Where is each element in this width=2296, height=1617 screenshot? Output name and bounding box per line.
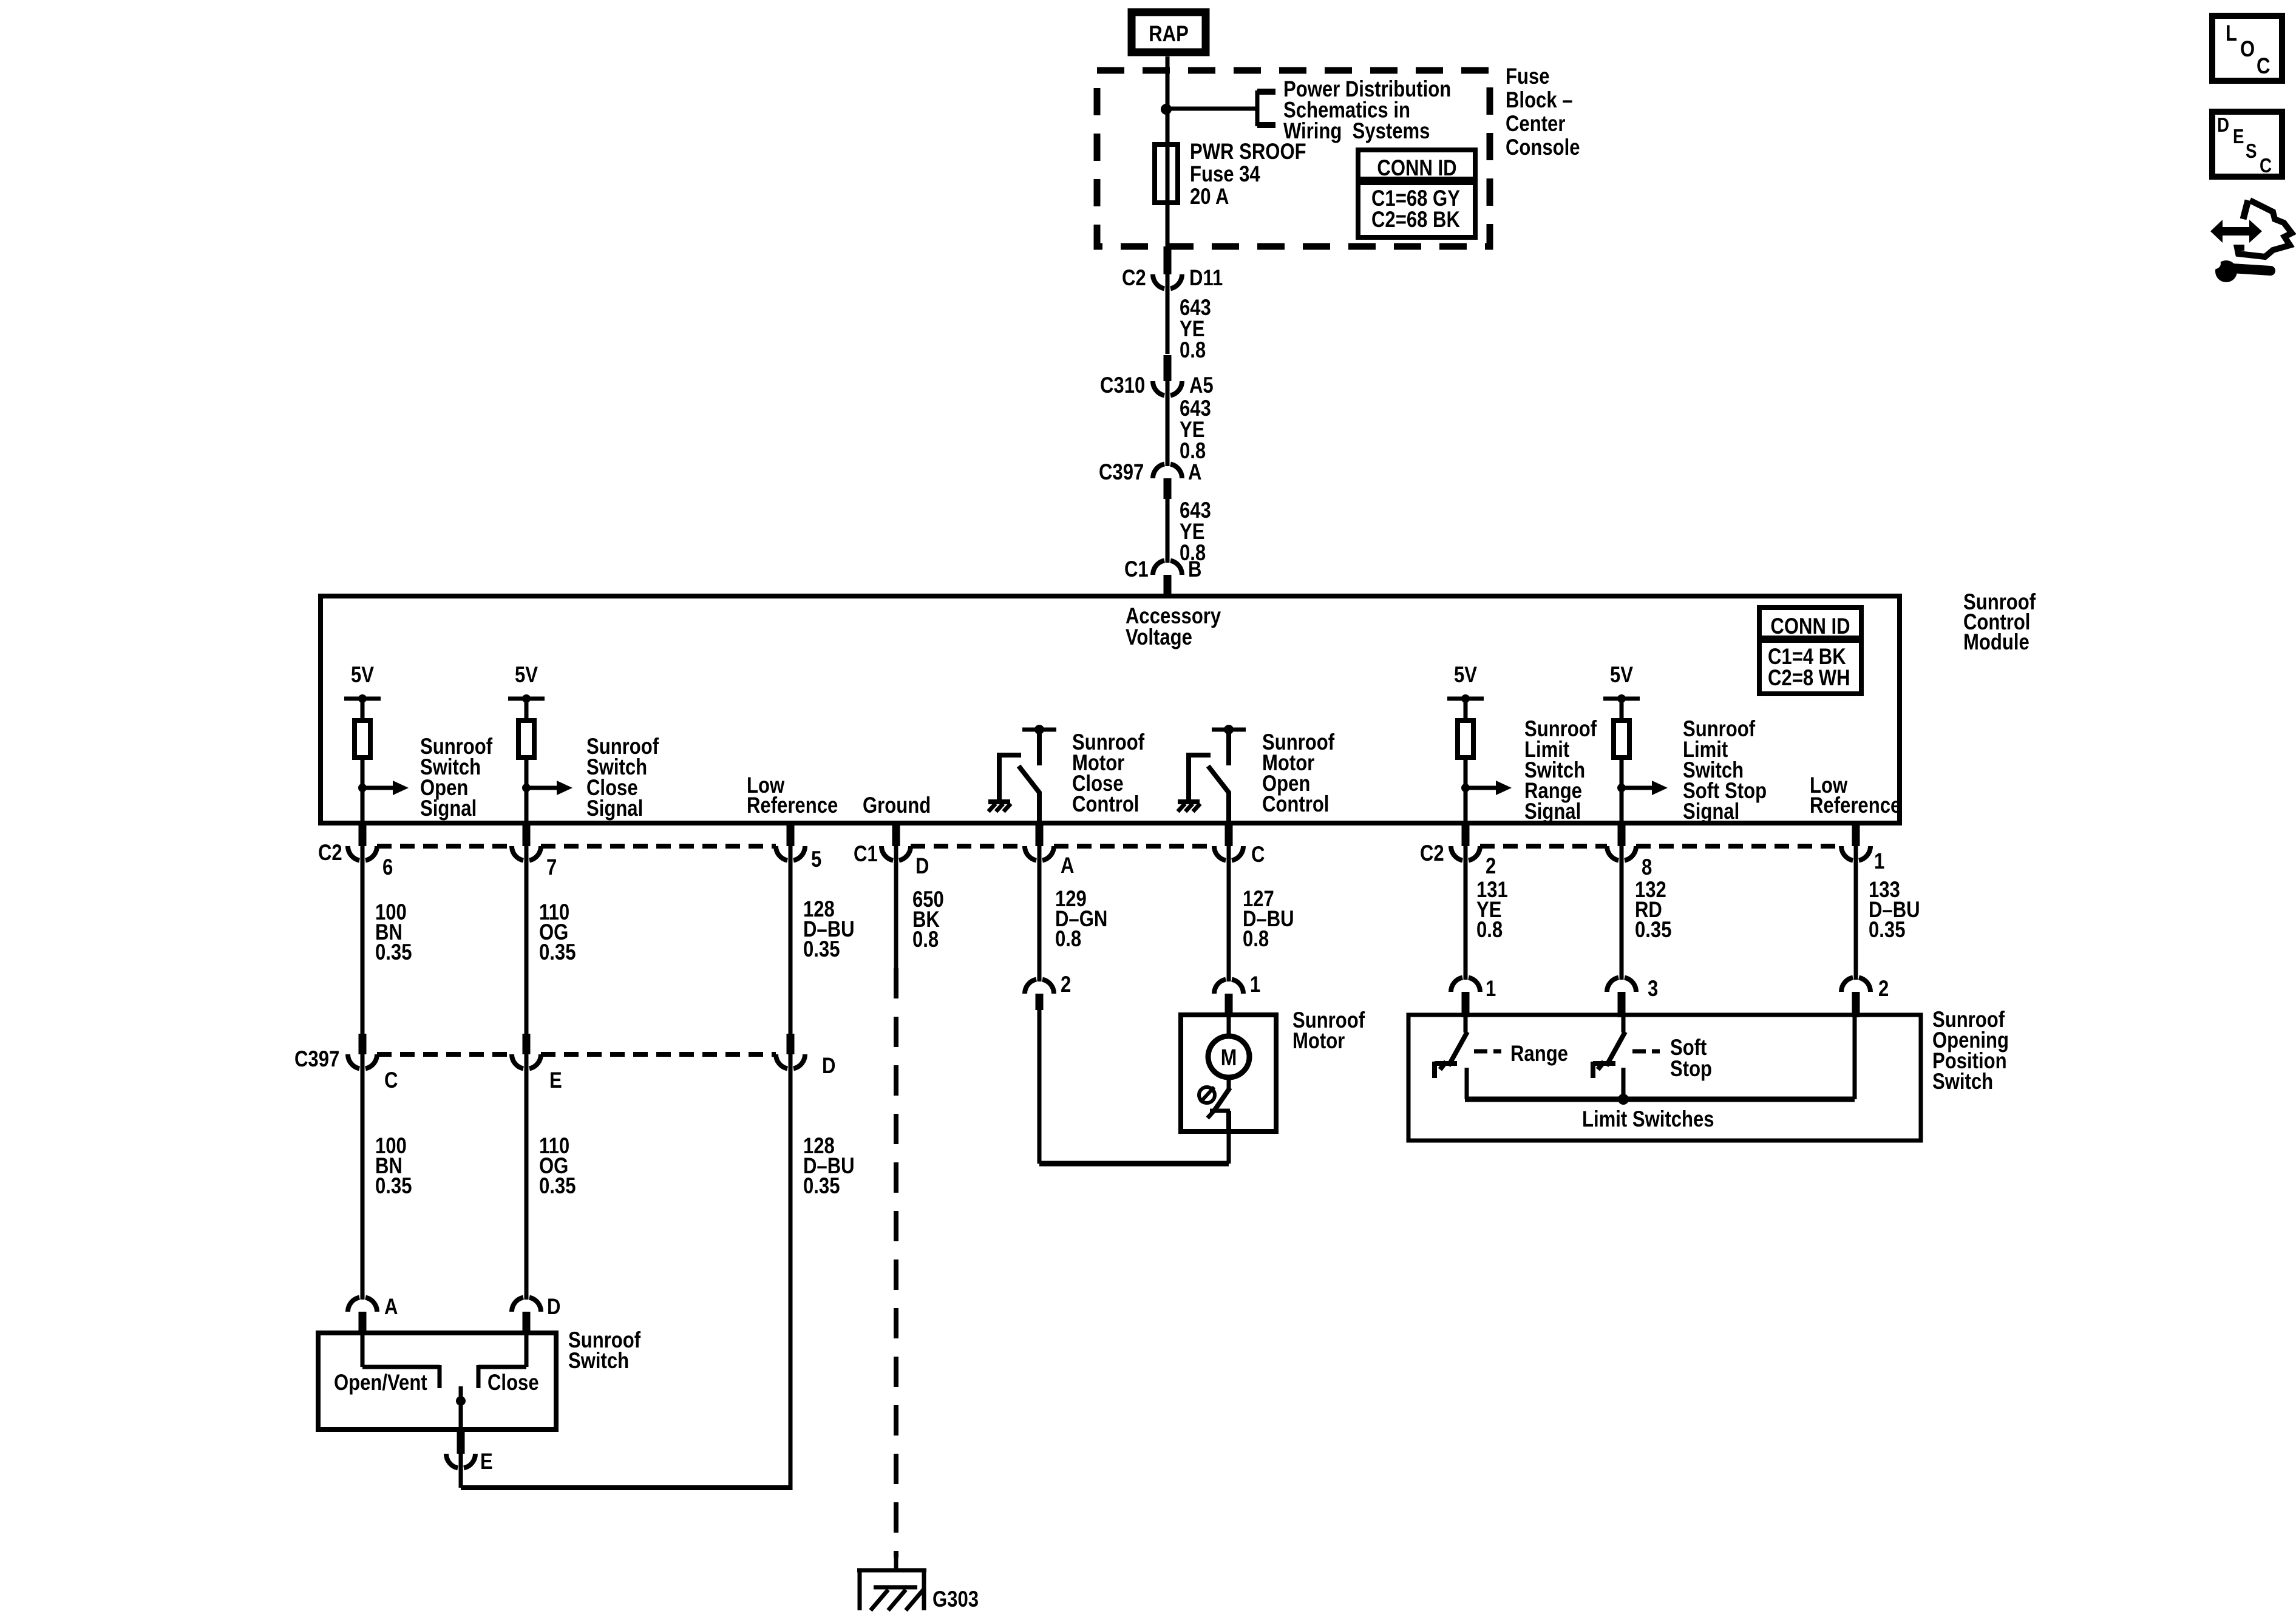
svg-text:L: L [2226,21,2237,46]
wire pin 2 to common bus [1853,1017,1857,1099]
wire 133 D-BU [1854,846,1858,980]
fuse F34 PWR SROOF [1155,144,1178,203]
module pin stub 1 [1852,824,1860,846]
label Low Reference (left) [747,773,838,818]
svg-text:C2: C2 [1420,841,1444,866]
wire label 129 D-GN 0.8 [1055,887,1107,952]
label Sunroof Motor Open Control [1262,730,1335,817]
junction node (soft stop) [1617,784,1626,792]
svg-text:A5: A5 [1189,373,1214,398]
label Sunroof Switch [568,1328,641,1374]
svg-text:C1=68 GYC2=68 BK: C1=68 GYC2=68 BK [1371,186,1460,232]
switch common pole [459,1386,463,1432]
svg-text:Close: Close [487,1371,539,1395]
wire label 127 D-BU 0.8 [1243,887,1294,952]
pin stub E [457,1432,465,1454]
svg-text:S: S [2246,140,2257,163]
svg-text:5V: 5V [1454,663,1477,688]
limit switch Soft Stop [1622,1017,1626,1032]
svg-text:C: C [1251,842,1265,867]
module connector pin D [881,846,911,861]
svg-text:G303: G303 [932,1587,979,1612]
wire motor bottom link [1039,1161,1229,1167]
connector pin 3 (position switch) [1607,977,1636,992]
pin stub into C310 [1164,355,1172,381]
module pin stub 7 [523,824,531,846]
label Soft Stop [1670,1036,1712,1082]
switch contact Close [525,1335,529,1367]
C397 pin stub C [359,1034,367,1054]
harness dashes C397 row [377,1052,512,1057]
junction dot fuse-block tap [1161,104,1172,115]
svg-text:1: 1 [1486,977,1496,1002]
label PWR SROOF Fuse 34 20A [1190,140,1306,209]
svg-text:1: 1 [1874,849,1884,874]
svg-text:SunroofControlModule: SunroofControlModule [1963,590,2036,655]
driver switch sunroof motor open control [1212,728,1246,732]
Sunroof Opening Position Switch box [1408,1015,1921,1141]
wire 650 BK dashed run [894,968,898,1558]
svg-text:D: D [915,854,929,879]
svg-text:D: D [2217,114,2229,137]
connector label C2 (left group) [318,841,342,866]
Sunroof Motor box [1181,1015,1276,1131]
connector C310 pin A5 [1153,381,1182,396]
module pin stub 6 [359,824,367,846]
C397 pin stub E [523,1034,531,1054]
svg-text:C1: C1 [1124,557,1149,582]
connector label C397 [294,1047,339,1072]
svg-text:CONN ID: CONN ID [1377,156,1456,181]
signal arrow (soft stop) [1622,786,1653,790]
junction node (close) [522,784,531,792]
svg-text:2: 2 [1878,977,1889,1002]
pin label 1 (position switch) [1486,977,1496,1002]
svg-text:M: M [1221,1045,1237,1070]
pin label 7 [546,855,557,880]
wire RAP feed vertical [1166,56,1170,250]
module connector pin 5 [776,846,805,861]
label G303 [932,1587,979,1612]
icon DESC [2212,112,2282,177]
label Open/Vent [334,1371,427,1395]
label Sunroof Opening Position Switch [1932,1008,2009,1094]
wire motor return [1038,1010,1042,1164]
module connector pin 2 [1451,846,1480,861]
wire label 110 OG 0.35 (2) [539,1134,576,1199]
limit switch common bus [1465,1097,1855,1102]
pin label D [915,854,929,879]
wire label 100 BN 0.35 (1) [375,900,412,965]
wire resistor to pin (soft stop) [1620,758,1624,824]
svg-text:C310: C310 [1100,373,1145,398]
wire label 110 OG 0.35 (1) [539,900,576,965]
5V supply (range) [1454,663,1477,688]
module pin stub 5 [787,824,795,846]
svg-text:C: C [384,1068,398,1093]
label Sunroof Limit Switch Soft Stop Signal [1683,717,1767,824]
label Close [487,1371,539,1395]
resistor pull-up (range) [1458,720,1473,758]
connector pin D (sunroof switch) [512,1297,541,1312]
pin label D [547,1295,560,1320]
svg-text:D: D [822,1054,835,1079]
icon LOC [2212,16,2282,81]
wire 100 BN upper [361,846,365,1034]
Sunroof Switch box [318,1333,556,1429]
module connector pin C [1214,846,1243,861]
pin label A [384,1295,398,1320]
wire 131 YE [1464,846,1468,980]
svg-text:5V: 5V [515,663,538,688]
label Ground [863,793,931,818]
module pin stub A [1036,824,1044,846]
connector pin 1 (motor) [1214,979,1243,994]
wire 128 D-BU lower [789,1054,793,1490]
connector label C2 (right group) [1420,841,1444,866]
wire label 131 YE 0.8 [1476,878,1508,943]
pin label C [1251,842,1265,867]
svg-text:7: 7 [546,855,557,880]
signal arrow (close) [526,786,558,790]
svg-text:C1: C1 [854,842,878,867]
svg-text:B: B [1188,557,1201,582]
label Low Reference (right) [1810,773,1901,818]
svg-text:5V: 5V [1610,663,1633,688]
wire label 643 YE 0.8 (2) [1180,396,1211,464]
module connector pin 6 [348,846,377,861]
module connector pin 8 [1607,846,1636,861]
junction dot switch common [456,1396,466,1406]
connector C2 pin D11 [1153,274,1182,289]
junction node (open) [358,784,367,792]
wire motor pin to bottom link [1227,1134,1231,1164]
position contact symbol (circle-slash) [1199,1087,1215,1103]
power symbol RAP [1132,12,1206,52]
svg-text:6: 6 [382,855,393,880]
svg-text:A: A [1188,460,1201,485]
wire label 132 RD 0.35 [1635,878,1671,943]
pin label 5 [811,847,821,872]
CONN ID table (fuse block) [1358,150,1475,237]
pin label 6 [382,855,393,880]
svg-text:E: E [549,1068,562,1093]
module pin stub D [892,824,900,846]
pin label E [480,1449,493,1474]
signal arrow (open) [362,786,394,790]
label Accessory Voltage [1126,604,1221,650]
svg-text:A: A [384,1295,398,1320]
pin label 1 [1874,849,1884,874]
label Limit Switches [1582,1107,1714,1132]
motor thermal switch [1227,1077,1231,1089]
svg-text:Open/Vent: Open/Vent [334,1371,427,1395]
5V supply (close) [515,663,538,688]
svg-text:8: 8 [1642,855,1652,880]
module connector pin 1 [1841,846,1870,861]
label Sunroof Control Module [1963,590,2036,655]
svg-text:Range: Range [1510,1042,1568,1066]
label Sunroof Limit Switch Range Signal [1524,717,1597,824]
wire 643 YE segment 2 [1166,381,1170,466]
svg-text:A: A [1061,853,1074,878]
svg-text:C: C [2257,54,2270,79]
icon adjustable component (hand/arrow/wrench) [2210,220,2262,243]
reference bracket Power Distribution [1255,90,1260,126]
ground symbol (driver close) [988,799,1010,804]
driver switch sunroof motor close control [1022,728,1056,732]
wire 129 D-GN [1038,846,1042,981]
label Sunroof Switch Open Signal [420,734,493,821]
ground G303 symbol [857,1568,926,1573]
connector pin 2 (position switch) [1841,977,1870,992]
pin label D [822,1054,835,1079]
svg-text:SoftStop: SoftStop [1670,1036,1712,1082]
connector label C1 (middle group) [854,842,878,867]
wire label 128 D-BU 0.35 (2) [803,1134,855,1199]
wire label 128 D-BU 0.35 (1) [803,897,855,962]
svg-text:C397: C397 [1099,460,1144,485]
module connector pin A [1025,846,1054,861]
switch contact Open/Vent [361,1335,365,1367]
pin label C [384,1068,398,1093]
wire label 100 BN 0.35 (2) [375,1134,412,1199]
svg-text:2: 2 [1486,854,1496,879]
connector pin A (sunroof switch) [348,1297,377,1312]
wire 110 OG lower [525,1054,529,1300]
label Sunroof Switch Close Signal [586,734,659,821]
wire resistor to pin (close) [525,758,529,824]
svg-text:3: 3 [1648,977,1658,1002]
wire label 643 YE 0.8 (3) [1180,498,1211,566]
svg-text:O: O [2240,37,2255,62]
svg-text:C2: C2 [318,841,342,866]
svg-text:D11: D11 [1189,266,1223,291]
label Sunroof Motor [1292,1008,1365,1054]
svg-text:5: 5 [811,847,821,872]
wire 127 D-BU [1227,846,1231,981]
motor M symbol [1227,1015,1231,1036]
svg-text:Limit Switches: Limit Switches [1582,1107,1714,1132]
connector C397 pin A [1153,464,1182,478]
C397 pin stub D [787,1034,795,1054]
ground symbol (driver open) [1178,799,1200,804]
dashed actuator link (Soft Stop) [1632,1049,1660,1054]
svg-text:Ground: Ground [863,793,931,818]
wire 100 BN lower [361,1054,365,1300]
pin label 2 [1486,854,1496,879]
dashed actuator link (Range) [1474,1049,1501,1054]
svg-text:E: E [2233,126,2244,148]
label Sunroof Motor Close Control [1072,730,1145,817]
svg-text:C1=4 BKC2=8 WH: C1=4 BKC2=8 WH [1768,645,1850,691]
svg-text:C: C [2260,155,2272,177]
label Range [1510,1042,1568,1066]
pin label 1 (motor) [1250,972,1260,997]
svg-text:5V: 5V [351,663,374,688]
wire resistor to pin (open) [361,758,365,824]
module pin stub 8 [1618,824,1626,846]
svg-text:D: D [547,1295,560,1320]
pin label E [549,1068,562,1093]
svg-text:1: 1 [1250,972,1260,997]
CONN ID table (module) [1759,608,1861,694]
module connector pin 7 [512,846,541,861]
signal arrow (range) [1466,786,1497,790]
low reference return wire horizontal [461,1485,790,1490]
module pin stub 2 [1462,824,1470,846]
wire resistor to pin (range) [1464,758,1468,824]
wire 643 YE segment 3 [1166,499,1170,563]
wire label 133 D-BU 0.35 [1869,878,1920,943]
pin label A [1061,853,1074,878]
label Power Distribution Schematics in Wiring Systems [1283,77,1451,144]
svg-text:E: E [480,1449,493,1474]
resistor pull-up (soft stop) [1614,720,1629,758]
wire label 643 YE 0.8 (1) [1180,296,1211,363]
connector pin 1 (position switch) [1451,977,1480,992]
wire 110 OG upper [525,846,529,1034]
pin label 2 (position switch) [1878,977,1889,1002]
wire 643 YE segment 1 [1166,274,1170,354]
pin stub into C2 [1164,246,1172,274]
wire tap to reference bracket [1166,107,1257,111]
label Fuse Block - Center Console [1506,64,1580,160]
pin label 2 (motor) [1061,972,1071,997]
Sunroof Control Module box [321,596,1900,823]
connector pin 2 (motor) [1025,979,1054,994]
svg-text:CONN ID: CONN ID [1770,614,1850,639]
5V supply (soft stop) [1610,663,1633,688]
module pin stub C [1225,824,1233,846]
svg-text:RAP: RAP [1149,22,1189,47]
junction node (range) [1461,784,1470,792]
fuse block dashed boundary [1097,70,1490,246]
wire 650 BK solid part [894,846,898,968]
5V supply (open) [351,663,374,688]
wire E to low-reference return [459,1454,463,1488]
harness dashes connector row 1 [377,844,512,849]
resistor pull-up (open) [355,720,370,758]
connector C397 pin E [512,1054,541,1069]
pin label 3 (position switch) [1648,977,1658,1002]
wire 132 RD [1620,846,1624,980]
svg-text:C2: C2 [1122,266,1146,291]
connector C1 pin B [1153,560,1182,575]
connector C397 pin D [776,1054,805,1069]
connector C397 pin C [348,1054,377,1069]
resistor pull-up (close) [518,720,534,758]
wire 128 D-BU upper [789,846,793,1034]
junction dot common bus [1618,1094,1629,1105]
svg-text:2: 2 [1061,972,1071,997]
wire label 650 BK 0.8 [912,887,944,952]
svg-text:C397: C397 [294,1047,339,1072]
limit switch Range [1464,1017,1468,1032]
connector pin E (sunroof switch) [446,1454,475,1468]
pin label 8 [1642,855,1652,880]
